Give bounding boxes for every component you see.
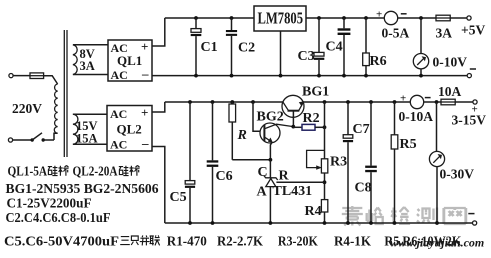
resistor R4 (305, 200, 328, 223)
fuse F1 3A (436, 15, 453, 40)
svg-text:QL2-20A: QL2-20A (73, 164, 118, 179)
parts list line 4 (6, 210, 111, 225)
svg-text:0-10A: 0-10A (399, 109, 434, 124)
fuse F2 10A (438, 84, 462, 105)
terminal 3-15V plus (452, 100, 487, 128)
svg-text:AC: AC (110, 138, 127, 152)
bridge rectifier QL1 (108, 39, 152, 82)
wire top rail (+8V rectified / 7805 input-output rail) (165, 17, 436, 19)
resistor R2 (293, 111, 324, 130)
parts list line 2 (6, 181, 159, 196)
svg-text:+: + (376, 9, 382, 21)
svg-text:LM7805: LM7805 (258, 8, 304, 27)
transistor BG1 (282, 85, 329, 127)
node bot C6 (211, 221, 215, 225)
svg-text:BG1-2N5935 BG2-2N5606: BG1-2N5935 BG2-2N5606 (6, 181, 159, 196)
svg-text:0-10V: 0-10V (433, 55, 468, 70)
node C3 top (317, 16, 321, 20)
svg-text:10A: 10A (438, 84, 462, 99)
parts list line 1 (8, 164, 140, 179)
svg-text:R4: R4 (305, 204, 322, 219)
node TL431 cathode (269, 158, 273, 162)
svg-text:C2: C2 (238, 41, 255, 56)
svg-text:C5.C6-50V4700uF: C5.C6-50V4700uF (4, 233, 119, 248)
svg-text:R3-20K: R3-20K (278, 233, 318, 248)
svg-text:C7: C7 (353, 122, 370, 137)
svg-text:R2: R2 (303, 111, 320, 126)
svg-text:15A: 15A (76, 131, 98, 145)
voltmeter PV1 0-10V (413, 54, 467, 76)
node BG1 base / BG2 collector (291, 125, 295, 129)
node C6 top (211, 100, 215, 104)
svg-text:R3: R3 (330, 154, 347, 169)
svg-text:–: – (141, 136, 149, 151)
svg-text:C3: C3 (298, 49, 315, 64)
svg-text:QL1-5A: QL1-5A (8, 164, 48, 179)
svg-text:R5: R5 (400, 137, 417, 152)
wire LM7805 ground pin (280, 31, 282, 76)
bridge rectifier QL2 (107, 105, 152, 152)
node BG2 base feed (251, 100, 255, 104)
wire output branch down to R3 (324, 102, 326, 159)
capacitor C7 (343, 102, 370, 223)
svg-text:C4: C4 (326, 40, 343, 55)
node R1 top (230, 100, 234, 104)
resistor R1 (229, 102, 270, 160)
node bot R4 (323, 221, 327, 225)
transformer B primary winding (54, 84, 57, 133)
node bot C7 (346, 221, 350, 225)
svg-text:R1-470: R1-470 (167, 233, 207, 248)
fuse F0 (mains fuse) (30, 73, 44, 79)
svg-text:C: C (258, 165, 268, 180)
node bot TL431 (269, 221, 273, 225)
svg-text:–: – (141, 66, 149, 81)
svg-text:AC: AC (110, 107, 127, 121)
capacitor C1 (191, 18, 218, 76)
terminal IN2 (220V neutral input) (8, 138, 12, 142)
node bot R5 (393, 221, 397, 225)
svg-text:QL2: QL2 (117, 122, 142, 137)
svg-text:C2.C4.C6.C8-0.1uF: C2.C4.C6.C8-0.1uF (6, 210, 111, 225)
resistor R6 (363, 18, 387, 76)
svg-text:A: A (257, 185, 268, 200)
svg-text:BG2: BG2 (257, 110, 284, 125)
node gnd PV1 (419, 74, 423, 78)
terminal IN1 (220V live input) (9, 74, 13, 78)
svg-text:C5: C5 (170, 190, 187, 205)
svg-text:+: + (141, 105, 148, 120)
voltmeter PV2 0-30V (429, 151, 474, 223)
svg-text:R6: R6 (370, 54, 387, 69)
wire to voltmeter PV2 (436, 102, 438, 151)
transistor BG2 (257, 110, 294, 160)
svg-text:R: R (237, 128, 247, 143)
transformer B secondary winding S1 8V 3A (73, 45, 108, 75)
potentiometer R3 (307, 150, 348, 199)
WATERMARK (decorative) (342, 206, 484, 250)
svg-text:TL431: TL431 (273, 184, 313, 199)
node C8 top (369, 100, 373, 104)
wire fuse to +5V terminal (450, 17, 467, 19)
wire QL2 minus down to bottom rail (152, 147, 165, 224)
node gnd C4 (342, 74, 346, 78)
svg-text:+5V: +5V (461, 23, 485, 38)
svg-text:QL1: QL1 (117, 53, 142, 68)
svg-text:R5.R6-10W2K: R5.R6-10W2K (384, 233, 461, 248)
svg-text:220V: 220V (12, 101, 42, 116)
svg-text:R: R (279, 169, 290, 184)
capacitor C5 (170, 102, 196, 223)
capacitor C8 (355, 102, 377, 223)
shunt regulator TL431 (257, 160, 325, 223)
wire fuse to 3-15V terminal (455, 101, 473, 103)
parts list line 3 (7, 196, 92, 211)
node C4 top (342, 16, 346, 20)
regulator U1 LM7805 (254, 6, 306, 31)
svg-text:R2-2.7K: R2-2.7K (217, 233, 263, 248)
node gnd R6 (364, 74, 368, 78)
node R5 top (393, 100, 397, 104)
node gnd C1 (194, 74, 198, 78)
svg-text:3A: 3A (80, 59, 95, 73)
svg-text:R4-1K: R4-1K (334, 233, 371, 248)
node R3/R4/TL431 ref (323, 180, 327, 184)
svg-text:C1: C1 (201, 40, 218, 55)
switch K (mains switch) (13, 133, 58, 142)
node voltmeter top (419, 16, 423, 20)
terminal 5V minus (467, 69, 476, 78)
svg-text:BG1: BG1 (302, 85, 329, 100)
transformer B secondary winding S2 15V 15A (73, 114, 107, 144)
node C1 top (194, 16, 198, 20)
node bot C8 (369, 221, 373, 225)
terminal +5V (461, 16, 485, 38)
wire bottom rail (165, 222, 473, 224)
svg-text:3-15V: 3-15V (452, 113, 487, 128)
wire upper ground rail (152, 75, 467, 77)
svg-text:C6: C6 (216, 169, 233, 184)
wire QL1 plus output to top rail (152, 18, 165, 46)
label 220V (12, 101, 42, 116)
node gnd 7805 (279, 74, 283, 78)
wire to voltmeter PV1 (420, 18, 422, 54)
label 8V 3A (80, 47, 95, 73)
node C2 top (230, 16, 234, 20)
svg-text:3A: 3A (436, 26, 453, 41)
capacitor C3 (298, 18, 325, 76)
node bot C5 (188, 221, 192, 225)
ammeter PA1 0-5A (376, 9, 409, 41)
svg-text:0-5A: 0-5A (382, 26, 410, 41)
capacitor C6 (207, 102, 233, 223)
wire QL2 plus output to lower positive rail (152, 102, 165, 112)
svg-text:+: + (400, 93, 406, 105)
svg-text:C1-25V2200uF: C1-25V2200uF (7, 196, 92, 211)
wire fuse to transformer primary (44, 76, 58, 84)
svg-text:0-30V: 0-30V (440, 167, 475, 182)
node R2 right (323, 125, 327, 129)
node gnd C2 (230, 74, 234, 78)
node emitter rail R2/R3 branch (323, 100, 327, 104)
svg-text:AC: AC (111, 68, 128, 82)
wire input to fuse (13, 75, 30, 77)
node C7 top (346, 100, 350, 104)
terminal 3-15V minus (468, 214, 476, 225)
transformer B core (64, 30, 67, 157)
node R6 top (364, 16, 368, 20)
parts list line 5 (4, 233, 462, 248)
wire lower positive rail (165, 101, 441, 103)
capacitor C4 (326, 18, 351, 76)
node gnd C3 (317, 74, 321, 78)
node 0-30V branch (435, 100, 439, 104)
ammeter PA2 0-10A (399, 93, 434, 125)
capacitor C2 (226, 18, 255, 76)
svg-text:C8: C8 (355, 181, 372, 196)
wire BG2 base (253, 102, 264, 131)
svg-text:+: + (141, 39, 148, 54)
resistor R5 (391, 102, 416, 223)
node bot PV2 (435, 221, 439, 225)
node C5 top (188, 100, 192, 104)
label 15V 15A (76, 119, 98, 146)
